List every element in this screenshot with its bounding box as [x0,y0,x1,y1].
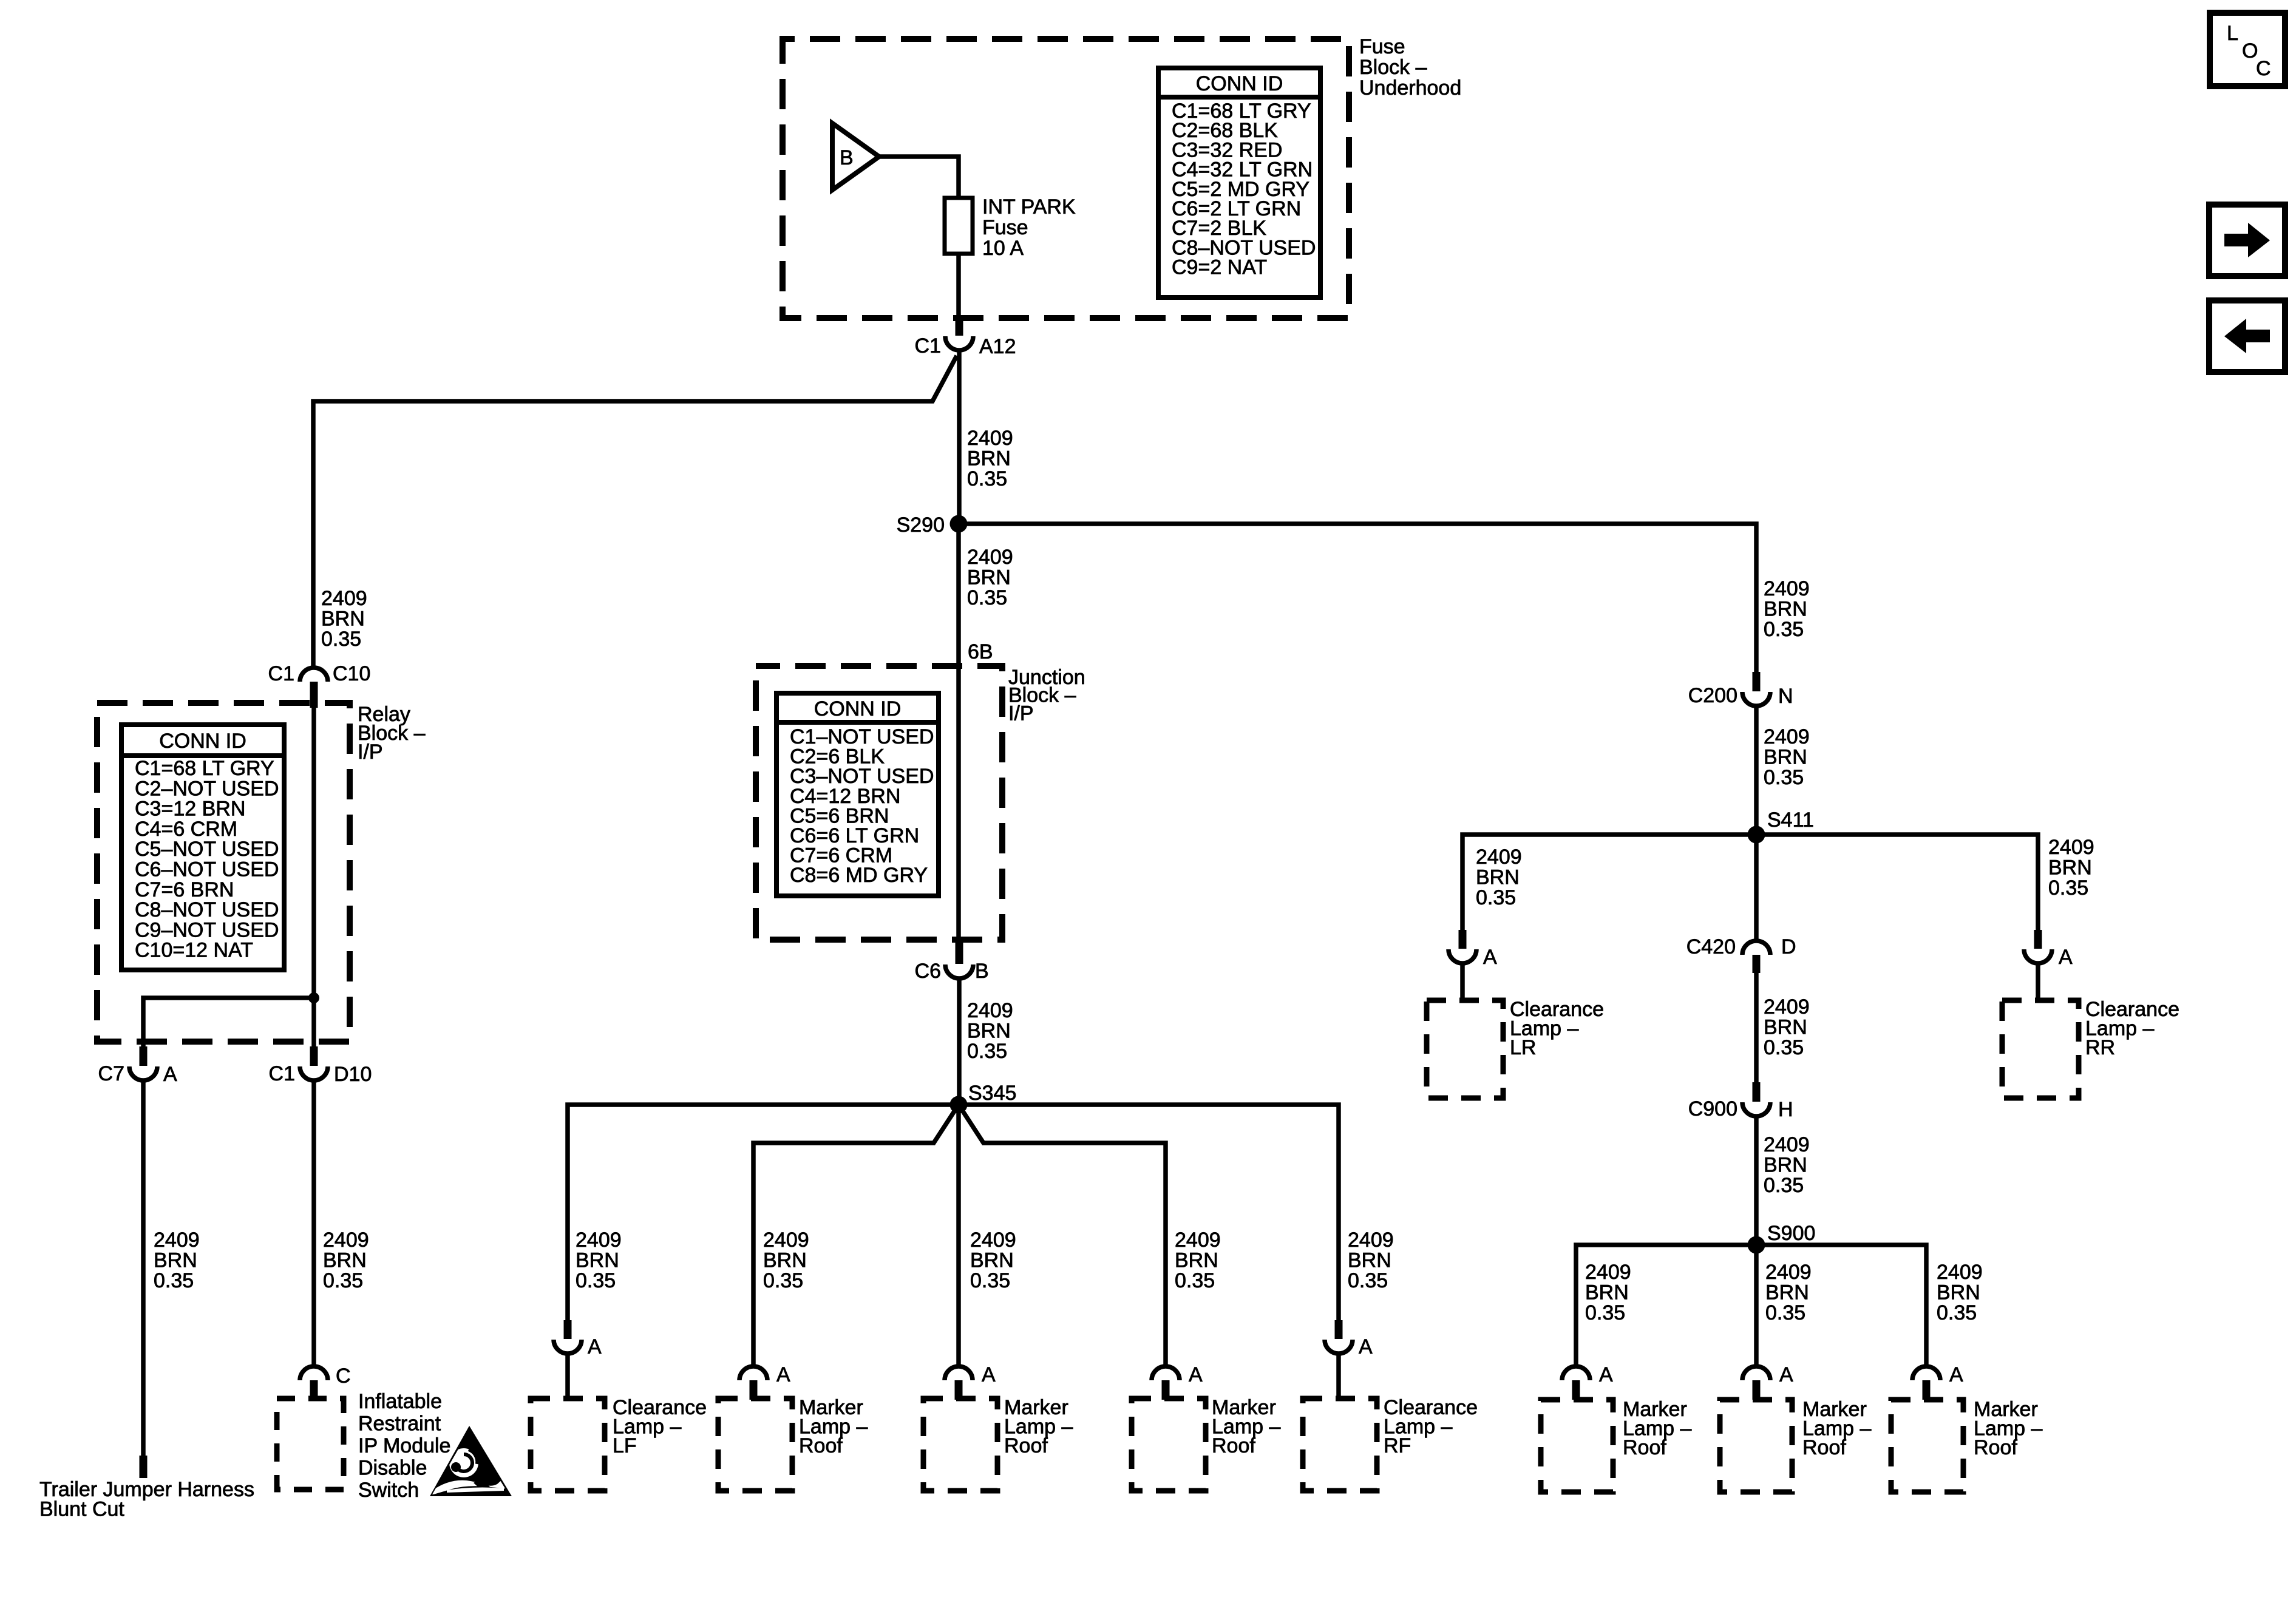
svg-text:BRN: BRN [1585,1281,1629,1304]
wire label 2409 BRN 0.35 (LR branch) [1476,846,1522,909]
wire label 2409 BRN 0.35 (branch 2) [763,1229,809,1292]
clearance lamp RF (dashed box) [1303,1398,1377,1491]
svg-text:0.35: 0.35 [1765,1301,1805,1324]
svg-text:C2–NOT USED: C2–NOT USED [135,777,279,800]
wire branch to relay block (diagonal + horizontal + down) [313,356,957,668]
blunt cut bar [140,1456,148,1478]
svg-text:LR: LR [1510,1036,1536,1059]
connector A (marker lamp 2) [739,1363,790,1400]
svg-text:BRN: BRN [323,1249,367,1272]
svg-text:C3=12 BRN: C3=12 BRN [135,798,245,821]
marker lamp roof 3 label [1212,1396,1280,1457]
svg-text:C: C [336,1364,351,1388]
disable switch label [358,1390,450,1502]
connector C1 / A12 [915,317,1016,358]
wire label 2409 BRN 0.35 (branch 1) [576,1229,622,1292]
wire label 2409 BRN 0.35 (S900 branch) [1585,1261,1631,1324]
svg-text:BRN: BRN [763,1249,807,1272]
svg-text:BRN: BRN [576,1249,619,1272]
svg-text:Block –: Block – [1359,56,1427,79]
svg-text:2409: 2409 [1764,577,1810,600]
wire to RF lamp [1336,1354,1341,1400]
svg-text:INT PARK: INT PARK [982,195,1076,219]
marker lamp roof label [1802,1398,1871,1459]
svg-text:0.35: 0.35 [967,1040,1007,1063]
marker lamp roof (dashed box) [1891,1400,1963,1492]
junction block CONN ID table [776,693,939,896]
svg-text:A: A [776,1363,790,1386]
svg-text:BRN: BRN [1764,597,1807,620]
svg-text:Roof: Roof [1212,1434,1255,1457]
svg-text:BRN: BRN [967,447,1011,470]
svg-text:BRN: BRN [1175,1249,1218,1272]
svg-text:RF: RF [1384,1434,1411,1457]
svg-text:C5–NOT USED: C5–NOT USED [135,838,279,861]
svg-text:Roof: Roof [799,1434,843,1457]
trailer jumper harness label [39,1478,254,1521]
svg-text:C1: C1 [915,334,941,358]
connector A (marker lamp 4) [1152,1363,1203,1400]
svg-text:BRN: BRN [1764,1015,1807,1039]
svg-text:A: A [2059,946,2073,969]
svg-text:Fuse: Fuse [982,216,1028,239]
svg-text:0.35: 0.35 [1764,618,1804,641]
relay block - I/P (dashed box) [97,703,350,1042]
wire S345 inner-right branch [959,1105,1166,1366]
svg-text:C420: C420 [1686,935,1736,958]
svg-text:I/P: I/P [358,741,383,764]
svg-text:H: H [1778,1098,1793,1121]
wire label 2409 BRN 0.35 (branch 4) [1175,1229,1221,1292]
marker lamp roof 1 (dashed box) [718,1398,792,1491]
svg-text:Switch: Switch [358,1479,419,1502]
svg-text:S345: S345 [968,1082,1016,1105]
marker lamp roof (dashed box) [1720,1400,1792,1492]
svg-text:C1: C1 [269,1062,295,1085]
back arrow icon [2209,300,2285,372]
marker lamp roof label [1974,1398,2042,1459]
svg-text:C6: C6 [915,960,941,983]
svg-text:BRN: BRN [1476,866,1520,889]
clearance lamp LF (dashed box) [531,1398,605,1491]
wire C200 to S411 [1754,706,1759,835]
svg-text:2409: 2409 [967,427,1013,450]
wire label 2409 BRN 0.35 (RR branch) [2048,836,2094,900]
svg-text:Roof: Roof [1802,1436,1846,1459]
svg-text:0.35: 0.35 [1937,1301,1977,1324]
connector A (roof marker lamp) [1562,1363,1613,1400]
wire label 2409 BRN 0.35 (D10 branch) [323,1229,369,1292]
svg-text:2409: 2409 [1764,1133,1810,1156]
splice S411 [1748,808,1814,844]
connector A (clearance lamp RR) [2024,930,2073,969]
SRS warning icon (airbag triangle) [430,1426,514,1496]
junction block label [1008,666,1085,725]
connector A (roof marker lamp) [1912,1363,1963,1400]
svg-text:Underhood: Underhood [1359,76,1461,100]
svg-text:0.35: 0.35 [970,1269,1010,1292]
svg-text:C8=6 MD GRY: C8=6 MD GRY [790,864,928,887]
svg-text:S411: S411 [1767,808,1814,832]
splice S290 [897,514,968,537]
svg-text:A: A [1779,1363,1793,1386]
wire to LF lamp [565,1354,570,1400]
svg-text:C1: C1 [268,662,294,685]
svg-text:CONN ID: CONN ID [814,697,902,720]
svg-text:Roof: Roof [1623,1436,1666,1459]
svg-text:0.35: 0.35 [763,1269,803,1292]
wire label 2409 BRN 0.35 (S290-6B) [967,546,1013,609]
svg-text:S290: S290 [897,514,945,537]
svg-text:A: A [1483,946,1497,969]
connector C900 / H [1688,1082,1793,1121]
wire C420 to C900 [1754,973,1759,1082]
svg-text:C: C [2256,57,2271,80]
svg-text:A12: A12 [979,335,1016,358]
svg-text:Blunt Cut: Blunt Cut [39,1498,124,1521]
svg-text:0.35: 0.35 [1175,1269,1215,1292]
svg-text:LF: LF [613,1434,637,1457]
wire S900 horizontal [1576,1245,1926,1366]
wire label 2409 BRN 0.35 (A12-S290) [967,427,1013,490]
wire label 2409 BRN 0.35 (branch 3) [970,1229,1016,1292]
svg-text:L: L [2227,22,2238,45]
wire C900 to S900 [1754,1116,1759,1245]
wire A12 down to S290 [957,350,962,524]
svg-text:A: A [588,1335,602,1358]
wire label 2409 BRN 0.35 (H-S900) [1764,1133,1810,1197]
svg-text:2409: 2409 [576,1229,622,1252]
svg-text:C1=68 LT GRY: C1=68 LT GRY [135,757,274,780]
clearance lamp LR label [1510,998,1604,1059]
fuse block label [1359,35,1461,100]
svg-text:I/P: I/P [1008,702,1034,725]
svg-text:10 A: 10 A [982,237,1024,260]
svg-text:0.35: 0.35 [967,467,1007,490]
svg-text:6B: 6B [968,640,993,663]
svg-text:C8–NOT USED: C8–NOT USED [135,898,279,921]
svg-text:0.35: 0.35 [967,586,1007,609]
svg-text:0.35: 0.35 [323,1269,363,1292]
wire from B to fuse [879,157,959,198]
svg-text:A: A [1949,1363,1963,1386]
svg-text:A: A [1189,1363,1203,1386]
svg-text:BRN: BRN [970,1249,1014,1272]
wire S900 center branch [1754,1245,1759,1366]
wire to C7 (horizontal inside relay block) [143,998,314,1046]
svg-text:BRN: BRN [967,1019,1011,1042]
connector C6 / B [915,940,989,983]
forward arrow icon [2209,205,2285,276]
connector C420 / D [1686,835,1796,973]
svg-text:B: B [840,146,854,169]
svg-text:2409: 2409 [967,546,1013,569]
svg-text:0.35: 0.35 [576,1269,616,1292]
wire S290 down to junction block [956,524,961,940]
svg-text:Roof: Roof [1974,1436,2017,1459]
wire to LR lamp [1460,964,1465,1002]
svg-text:C6–NOT USED: C6–NOT USED [135,858,279,881]
svg-text:A: A [982,1363,996,1386]
svg-text:0.35: 0.35 [154,1269,194,1292]
svg-text:BRN: BRN [154,1249,197,1272]
svg-text:2409: 2409 [1765,1261,1812,1284]
clearance lamp LR (dashed box) [1427,1000,1503,1098]
wire label 2409 BRN 0.35 (N-S411) [1764,725,1810,789]
inflatable restraint disable switch (dashed box) [277,1398,344,1490]
wire C10 to D10 [311,998,316,1046]
marker lamp roof 2 (dashed box) [923,1398,997,1491]
connector A (marker lamp 3) [945,1363,996,1400]
marker lamp roof 2 label [1004,1396,1073,1457]
clearance lamp RF label [1384,1396,1478,1457]
svg-text:C7: C7 [98,1062,124,1085]
wire S290 right to C200 [959,524,1756,672]
marker lamp roof 3 (dashed box) [1132,1398,1206,1491]
fuse label INT PARK Fuse 10 A [982,195,1076,260]
svg-text:2409: 2409 [1764,725,1810,748]
fuse block - underhood (dashed box) [783,39,1349,318]
svg-text:Roof: Roof [1004,1434,1048,1457]
junction dot inside relay block [308,992,319,1003]
fuse INT PARK 10A [945,198,973,254]
connector C1 / C10 [268,662,371,708]
svg-text:Fuse: Fuse [1359,35,1405,58]
svg-text:2409: 2409 [321,587,367,610]
svg-text:D: D [1781,935,1796,958]
svg-text:N: N [1778,685,1793,708]
svg-text:A: A [1599,1363,1613,1386]
wire S345 inner-left branch [753,1105,959,1366]
wire to RR lamp [2036,964,2040,1002]
wire S345 outer horizontal [568,1105,1339,1320]
svg-text:A: A [163,1063,177,1086]
wire label 2409 BRN 0.35 (left branch) [321,587,367,651]
svg-text:2409: 2409 [967,999,1013,1022]
svg-text:0.35: 0.35 [1764,1174,1804,1197]
connector C200 / N [1688,672,1793,708]
wire C10 down inside relay block [311,708,316,998]
svg-text:2409: 2409 [154,1229,200,1252]
fuse block CONN ID table [1158,68,1320,297]
svg-text:2409: 2409 [1175,1229,1221,1252]
connector A (clearance lamp LR) [1449,930,1497,969]
connector A (clearance lamp LF) [554,1320,602,1358]
svg-text:2409: 2409 [1476,846,1522,869]
relay block label [358,703,426,764]
svg-text:C900: C900 [1688,1097,1737,1120]
svg-text:0.35: 0.35 [1348,1269,1388,1292]
node B (battery feed triangle) [832,123,879,190]
marker lamp roof 1 label [799,1396,868,1457]
svg-text:C9=2 NAT: C9=2 NAT [1172,256,1267,279]
svg-text:2409: 2409 [970,1229,1016,1252]
marker lamp roof label [1623,1398,1691,1459]
connector C7 / A [98,1046,177,1086]
svg-text:IP Module: IP Module [358,1434,450,1457]
svg-text:C10: C10 [333,662,370,685]
junction block - I/P (dashed box) [756,666,1002,940]
wire label 2409 BRN 0.35 (S900 branch) [1765,1261,1812,1324]
svg-text:0.35: 0.35 [2048,876,2088,900]
marker lamp roof (dashed box) [1541,1400,1613,1492]
wire fuse to connector C1 A12 [956,254,961,318]
svg-text:BRN: BRN [2048,856,2092,879]
terminal label 6B [968,640,993,663]
svg-text:0.35: 0.35 [1764,766,1804,789]
svg-text:0.35: 0.35 [1764,1036,1804,1059]
svg-text:BRN: BRN [1764,745,1807,768]
clearance lamp LF label [613,1396,707,1457]
svg-text:2409: 2409 [1937,1261,1983,1284]
svg-text:Restraint: Restraint [358,1412,441,1436]
svg-text:0.35: 0.35 [1585,1301,1625,1324]
LOC icon box [2210,13,2285,86]
connector A (roof marker lamp) [1742,1363,1793,1400]
connector A (clearance lamp RF) [1325,1320,1373,1358]
splice S345 [950,1082,1017,1114]
wire S345 center branch [956,1113,961,1366]
svg-text:2409: 2409 [1348,1229,1394,1252]
wire label 2409 BRN 0.35 (C7 branch) [154,1229,200,1292]
wire C6-B down to S345 [957,978,962,1105]
svg-text:C4=6 CRM: C4=6 CRM [135,818,237,841]
clearance lamp RR label [2085,998,2179,1059]
wire C7-A down to blunt cut [141,1081,146,1457]
svg-text:Inflatable: Inflatable [358,1390,442,1413]
svg-text:2409: 2409 [1764,995,1810,1019]
svg-text:2409: 2409 [763,1229,809,1252]
svg-text:0.35: 0.35 [321,628,361,651]
svg-text:2409: 2409 [2048,836,2094,859]
wire label 2409 BRN 0.35 (S290-C200) [1764,577,1810,641]
connector C (disable switch) [300,1364,351,1400]
svg-text:C7=6 BRN: C7=6 BRN [135,878,234,901]
svg-text:S900: S900 [1767,1222,1815,1245]
wire S411 horizontal [1462,835,2038,930]
svg-text:B: B [975,960,989,983]
wire D10 down to switch [311,1081,316,1366]
relay block CONN ID table [121,725,284,970]
svg-text:C200: C200 [1688,684,1737,707]
wire label 2409 BRN 0.35 (branch 5) [1348,1229,1394,1292]
svg-text:D10: D10 [334,1063,372,1086]
svg-text:BRN: BRN [967,566,1011,589]
wire label 2409 BRN 0.35 (S411-D) [1764,995,1810,1059]
svg-text:BRN: BRN [1937,1281,1980,1304]
wire label 2409 BRN 0.35 (B-S345) [967,999,1013,1063]
svg-text:Disable: Disable [358,1457,427,1480]
svg-text:CONN ID: CONN ID [1196,72,1283,95]
svg-text:2409: 2409 [1585,1261,1631,1284]
svg-text:0.35: 0.35 [1476,886,1516,909]
connector C1 / D10 [269,1046,372,1086]
svg-text:BRN: BRN [1765,1281,1809,1304]
wire label 2409 BRN 0.35 (S900 branch) [1937,1261,1983,1324]
svg-text:C9–NOT USED: C9–NOT USED [135,918,279,941]
splice S900 [1748,1222,1816,1254]
svg-text:BRN: BRN [321,607,365,630]
svg-text:RR: RR [2085,1036,2115,1059]
svg-text:BRN: BRN [1348,1249,1391,1272]
clearance lamp RR (dashed box) [2002,1000,2079,1098]
svg-text:CONN ID: CONN ID [159,730,246,753]
svg-text:A: A [1359,1335,1373,1358]
svg-text:2409: 2409 [323,1229,369,1252]
svg-text:BRN: BRN [1764,1153,1807,1176]
svg-text:C10=12 NAT: C10=12 NAT [135,939,253,962]
